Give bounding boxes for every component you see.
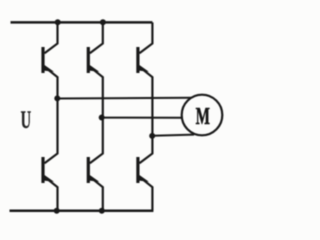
junction dot: phase B node <box>99 115 105 121</box>
wire: phase B line to motor <box>102 117 183 119</box>
junction dot: phase C node <box>149 133 155 139</box>
svg-text:U: U <box>21 105 31 135</box>
junction dot: top rail / leg 1 <box>55 19 61 25</box>
svg-text:M: M <box>196 104 210 130</box>
transistor Q4 <box>43 98 58 210</box>
motor M <box>182 95 223 136</box>
wire: top DC rail <box>11 21 153 24</box>
junction dot: top rail / leg 2 <box>100 19 106 25</box>
wire: phase C line to motor <box>152 135 194 136</box>
wire: bottom DC rail <box>10 210 154 213</box>
junction dot: phase A node <box>54 95 60 101</box>
wire: phase A line to motor <box>57 97 192 100</box>
transistor Q6 <box>138 136 153 211</box>
transistor Q5 <box>88 118 103 211</box>
transistor Q1 <box>43 22 58 98</box>
junction dot: bottom rail / leg 1 <box>54 208 60 214</box>
junction dot: bottom rail / leg 2 <box>99 208 105 214</box>
transistor Q2 <box>88 22 103 117</box>
transistor Q3 <box>138 22 153 135</box>
